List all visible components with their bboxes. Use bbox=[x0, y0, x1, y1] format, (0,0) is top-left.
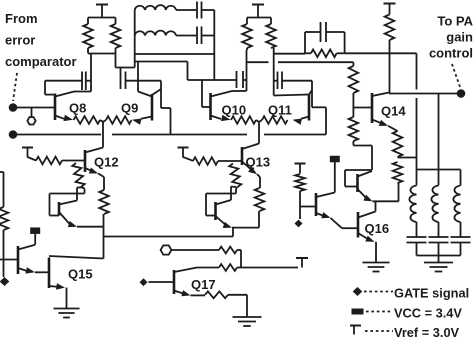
transistor Q9 base bar bbox=[151, 94, 154, 121]
wire tie pair2 to chain bbox=[278, 61, 353, 63]
resistor R-e-Q11 bbox=[262, 116, 288, 124]
legend VCC symbol bbox=[352, 309, 364, 315]
Q11 label bbox=[268, 103, 292, 118]
text From error comparator bbox=[5, 11, 77, 69]
capacitor C-Q10 bbox=[237, 71, 244, 88]
wire rail segment 3 bbox=[264, 134, 326, 136]
resistor R1-Q17 bbox=[219, 247, 237, 254]
svg-text:error: error bbox=[5, 33, 35, 48]
wire follower emitter to Q15 base bbox=[35, 271, 49, 273]
text To PA gain control bbox=[429, 14, 474, 61]
wire L1 to C1 bbox=[176, 9, 197, 11]
ground resonators bbox=[424, 263, 453, 272]
capacitor C-Q11 bbox=[278, 72, 283, 90]
wire mirror emitter to node bbox=[77, 226, 104, 228]
wire vert from output node bbox=[438, 94, 440, 170]
dashed leader to output dot bbox=[452, 64, 460, 87]
wire Q16fol base bbox=[300, 206, 316, 208]
Q17 emitter bbox=[174, 290, 191, 296]
resistor R-RC bbox=[305, 50, 345, 58]
resistor R-e-Q12 bbox=[99, 190, 109, 214]
resistor R-e-Q13 bbox=[255, 188, 265, 211]
resistor R-b-Q16 bbox=[295, 174, 305, 191]
wire C-Q11 right to jog bbox=[282, 80, 312, 82]
Q12-mirror emitter bbox=[59, 212, 77, 227]
capacitor C-Q8 bbox=[82, 72, 86, 91]
wire to ground corner bbox=[228, 295, 247, 317]
Q9 cap-rail jog bbox=[152, 81, 171, 135]
svg-text:Q14: Q14 bbox=[381, 104, 406, 119]
Q11 cap-rail jog bbox=[309, 81, 326, 135]
wire C1 to right bus bbox=[202, 9, 215, 11]
node Q10Q11 emitters bbox=[256, 120, 262, 122]
Q13-mirror collector bbox=[216, 187, 237, 205]
wire output line bbox=[389, 93, 458, 95]
svg-text:Q12: Q12 bbox=[94, 155, 119, 170]
inductor L4 bbox=[431, 186, 438, 223]
wire C-Q9 right to jog bbox=[126, 80, 162, 82]
inductor L5 bbox=[453, 186, 460, 223]
resistor R-e-Q8 bbox=[74, 116, 101, 124]
resistor R-b-Q13 bbox=[193, 157, 218, 165]
capacitor C5 bbox=[451, 237, 471, 243]
Q14 collector bbox=[372, 93, 389, 97]
capacitor C-RC bbox=[321, 22, 327, 42]
wire vert from rail lower bbox=[416, 98, 418, 170]
wire RC right edge bbox=[344, 32, 346, 53]
wire split pair1 bbox=[88, 18, 116, 25]
resistor R2-Q17 bbox=[219, 264, 237, 271]
wire tank bottom bus A bbox=[135, 53, 215, 55]
wire chain corner bbox=[352, 62, 354, 66]
wire rail to Q14 area bbox=[345, 52, 417, 54]
Q16-follower emitter bbox=[316, 212, 331, 218]
svg-text:Q15: Q15 bbox=[68, 267, 93, 282]
Q15-follower emitter bbox=[18, 267, 35, 273]
legend Vref dashes bbox=[365, 330, 393, 332]
wire Q15 emitter to ground bbox=[66, 288, 68, 308]
Q15 emitter bbox=[49, 283, 65, 289]
Q10 emitter bbox=[211, 115, 231, 121]
wire node down to Q12 bbox=[102, 122, 104, 148]
wire RC left edge bbox=[304, 32, 306, 53]
GATE diamond Q17 bbox=[140, 278, 148, 286]
svg-text:control: control bbox=[429, 46, 473, 61]
resistor R-b-Q12 bbox=[36, 157, 62, 165]
legend VCC dashes bbox=[366, 311, 393, 313]
Vref symbol (Q13 cell) bbox=[178, 148, 189, 158]
wire rail segment 1 bbox=[13, 134, 101, 136]
VCC symbol (Q16 cell) bbox=[330, 156, 340, 193]
Q8 label bbox=[69, 101, 86, 116]
Q15 label bbox=[68, 267, 93, 282]
wire node down to Q13 bbox=[258, 122, 260, 144]
ground Q16 bbox=[363, 263, 390, 272]
transistor Q12-mirror base bar bbox=[58, 202, 61, 216]
resistor R-pair1-left bbox=[83, 24, 93, 54]
wire Q12 mirror loop bbox=[50, 187, 85, 216]
transistor Q13-mirror base bar bbox=[214, 202, 217, 220]
svg-text:Q8: Q8 bbox=[69, 101, 86, 116]
capacitor C4 bbox=[429, 237, 449, 243]
inductor L1 bbox=[135, 5, 176, 10]
wire C-Q10 right stub bbox=[243, 79, 247, 81]
wire split pair2 bbox=[247, 18, 271, 25]
resistor R-Vref3 bbox=[385, 15, 395, 41]
wire resonator bottom bus bbox=[417, 255, 461, 257]
Q8 emitter bbox=[55, 115, 73, 121]
inductor L3 bbox=[409, 186, 416, 223]
wire tie pair1 bottoms bbox=[88, 53, 116, 55]
Q9 label bbox=[121, 101, 138, 116]
svg-text:comparator: comparator bbox=[5, 54, 77, 69]
GATE diamond Q16 bbox=[295, 220, 303, 228]
transistor Q15 base bar bbox=[48, 258, 51, 289]
Q10 collector bbox=[211, 91, 247, 97]
legend VCC text bbox=[394, 306, 462, 321]
Q12-mirror collector bbox=[59, 188, 81, 205]
wire mirror emitter to node bbox=[232, 211, 259, 228]
Q11 collector bbox=[274, 95, 309, 96]
wire L2 to C2 bbox=[176, 35, 197, 37]
transistor Q12 base bar bbox=[84, 150, 87, 172]
wire lower rail bbox=[104, 236, 234, 238]
wire pair2-right down bbox=[273, 48, 275, 96]
resistor R-e-Q17 bbox=[205, 291, 228, 298]
legend Vref symbol bbox=[350, 326, 361, 335]
transistor Q11 base bar bbox=[308, 94, 311, 121]
wire to base node bbox=[299, 191, 301, 219]
wire chain lower bbox=[3, 230, 5, 277]
Q16 label bbox=[365, 221, 390, 236]
wire RC top left bbox=[305, 31, 321, 33]
wire Vref3 to rail bbox=[389, 40, 391, 53]
resistor R-e-Q14-b bbox=[393, 162, 403, 183]
Q11 emitter bbox=[293, 117, 310, 125]
resistor R-e-Q10 bbox=[231, 116, 256, 124]
resistor R-slant-Q13 bbox=[229, 164, 241, 188]
wire coils to caps bbox=[417, 222, 461, 237]
node tank left edge wire bbox=[134, 10, 136, 68]
wire C-Q11 left stub bbox=[274, 80, 278, 82]
Q13 label bbox=[246, 155, 271, 170]
svg-text:To PA: To PA bbox=[437, 14, 473, 29]
resistor R-e-Q9 bbox=[106, 116, 132, 124]
wire to Q12 base bbox=[62, 160, 85, 162]
resistor R-pair2-right bbox=[266, 24, 276, 48]
wire Vref to resistor bbox=[28, 157, 37, 161]
wire tank right bus bbox=[213, 10, 215, 80]
transistor Q10 base bar bbox=[209, 93, 212, 120]
capacitor C3 bbox=[407, 237, 427, 243]
Q16 collector bbox=[358, 202, 376, 218]
wire R1 corner down bbox=[237, 250, 241, 268]
Q15-follower collector bbox=[18, 245, 35, 250]
wire mirror emitter to lower rail bbox=[232, 228, 234, 237]
Q10 label bbox=[222, 103, 247, 118]
resistor R-slant-Q12 bbox=[72, 163, 84, 187]
wire tie pair2 bbox=[247, 61, 269, 63]
wire rail segment 2 bbox=[112, 134, 247, 136]
wire follower emitter to Q16 base bbox=[331, 218, 359, 228]
resistor R-pair2-left bbox=[242, 24, 252, 50]
Q17 label bbox=[191, 277, 216, 292]
wire caps to bottom bus bbox=[417, 243, 461, 256]
legend GATE text bbox=[394, 286, 469, 301]
wire base line left bbox=[0, 259, 18, 261]
svg-text:Vref = 3.0V: Vref = 3.0V bbox=[394, 325, 460, 338]
wire vert from rail upper bbox=[416, 53, 418, 89]
wire chain jog to diode bbox=[353, 146, 372, 171]
Q9 emitter bbox=[132, 117, 152, 125]
wire resonator top bus bbox=[417, 170, 461, 186]
Q12 emitter bbox=[85, 168, 98, 174]
wire pair1-left down to Q8 collector bbox=[90, 54, 92, 92]
svg-text:Q16: Q16 bbox=[365, 221, 390, 236]
wire Q10 base corner bbox=[202, 80, 211, 107]
hexagon pad Q17 bbox=[161, 245, 172, 254]
wire Q13 emitter to resistor bbox=[257, 174, 260, 188]
capacitor C-Q9 bbox=[121, 72, 126, 90]
Q9 collector bbox=[138, 62, 152, 97]
Q16-diode emitter bbox=[358, 189, 373, 201]
capacitor C2 bbox=[197, 27, 202, 45]
wire hexagon to resistor bbox=[171, 249, 219, 251]
node Q8Q9 emitters bbox=[100, 120, 106, 122]
transistor Q16-diode base bar bbox=[356, 174, 359, 192]
svg-text:Q9: Q9 bbox=[121, 101, 138, 116]
Q15 collector bbox=[49, 256, 104, 259]
wire tap to tank bus bbox=[398, 157, 417, 159]
wire node to RC net bbox=[274, 53, 305, 55]
svg-text:VCC = 3.4V: VCC = 3.4V bbox=[394, 306, 462, 321]
wire bottom bus to ground bbox=[438, 256, 440, 263]
transistor Q8 base bar bbox=[54, 94, 57, 121]
Q16 emitter bbox=[358, 233, 375, 242]
wire chain upper bbox=[3, 172, 5, 207]
Q16-diode collector bbox=[358, 171, 373, 177]
transistor Q17 base bar bbox=[173, 270, 176, 294]
Q16-follower collector bbox=[316, 193, 335, 198]
Vref symbol (top-left pair) bbox=[96, 5, 108, 18]
inductor L2 bbox=[135, 31, 176, 36]
wire Vref to resistor bbox=[183, 157, 193, 161]
wire pair1-right down to line C bbox=[116, 54, 135, 72]
wire diode emitter to resistor node bbox=[373, 200, 399, 202]
wire diode collector feed bbox=[345, 169, 372, 171]
Vref symbol (center pair) bbox=[252, 5, 264, 18]
Vref symbol (Q16 cell) bbox=[295, 164, 306, 174]
transistor Q16 base bar bbox=[357, 212, 360, 238]
wire Q17 emitter resistor bbox=[191, 294, 206, 296]
Vref symbol (Q12 cell) bbox=[22, 148, 33, 158]
Vref symbol (Q17) bbox=[296, 258, 308, 268]
wire R2 to Vref bbox=[237, 267, 298, 269]
svg-text:Q17: Q17 bbox=[191, 277, 216, 292]
svg-text:Q13: Q13 bbox=[246, 155, 271, 170]
transistor Q16-follower base bar bbox=[315, 193, 318, 216]
wire Q16 emitter to ground bbox=[375, 242, 377, 262]
wire Q14 emitter to resistor bbox=[388, 126, 398, 131]
capacitor C1 bbox=[197, 2, 202, 19]
svg-text:Q10: Q10 bbox=[222, 103, 247, 118]
wire Q14 base bbox=[353, 107, 372, 109]
wire rail to output node bbox=[389, 53, 391, 93]
node output dot bbox=[457, 89, 466, 98]
resistor R-pair1-right bbox=[111, 24, 121, 54]
wire node vertical bbox=[103, 214, 105, 259]
wire C2 to right bus bbox=[202, 35, 215, 37]
svg-text:gain: gain bbox=[446, 30, 473, 45]
svg-text:GATE signal: GATE signal bbox=[394, 286, 469, 301]
transistor Q13 base bar bbox=[241, 147, 244, 165]
Vref symbol (Q14 collector) bbox=[384, 4, 396, 15]
wire pair2-left down bbox=[246, 50, 248, 91]
dashed leader from text to input dot bbox=[13, 73, 17, 101]
wire resistor bottom down bbox=[398, 183, 400, 202]
hexagon pad bbox=[27, 108, 35, 125]
wire Q13 mirror loop bbox=[206, 187, 238, 216]
Q13 emitter bbox=[242, 162, 257, 175]
ground Q15 bbox=[54, 309, 80, 318]
wire input lower rail dot bbox=[9, 130, 18, 139]
wire stub left edge bbox=[0, 171, 4, 173]
Q17 collector bbox=[174, 268, 219, 273]
Q8 collector bbox=[55, 92, 91, 97]
wire C-Q8 right stub bbox=[86, 80, 91, 82]
GATE diamond left bbox=[0, 277, 9, 286]
wire Q12 emitter to resistor bbox=[98, 173, 104, 190]
legend GATE dashes bbox=[364, 291, 393, 293]
ground Q17 bbox=[233, 317, 262, 326]
wire input upper bbox=[9, 103, 55, 112]
Q13-mirror emitter bbox=[216, 216, 233, 228]
transistor Q15-follower base bar bbox=[17, 246, 20, 274]
wire C-Q8 left to base corner bbox=[45, 81, 82, 95]
wire line B drop bbox=[187, 62, 189, 81]
resistor R-b1-Q14 bbox=[349, 66, 359, 93]
legend GATE diamond bbox=[353, 287, 363, 296]
resistor R-b2-Q14 bbox=[349, 117, 359, 146]
Q12 collector bbox=[85, 148, 103, 153]
svg-text:From: From bbox=[5, 11, 38, 26]
wire to Q13 base bbox=[218, 160, 242, 162]
wire chain mid bbox=[352, 93, 354, 117]
wire diode loop bbox=[345, 170, 358, 187]
wire diamond to Q17 base bbox=[149, 281, 175, 283]
svg-text:Q11: Q11 bbox=[268, 103, 292, 118]
wire RC top right bbox=[326, 31, 345, 33]
VCC symbol (Q15 cell) bbox=[30, 227, 40, 244]
wire tank line B bbox=[135, 61, 188, 63]
transistor Q14 base bar bbox=[371, 93, 374, 123]
legend Vref text bbox=[394, 325, 460, 338]
Q13 collector bbox=[242, 144, 259, 150]
resistor R-chain-left bbox=[0, 207, 8, 230]
Q14 label bbox=[381, 104, 406, 119]
Q14 emitter bbox=[372, 120, 388, 126]
Q12 label bbox=[94, 155, 119, 170]
wire Q10 base top bbox=[188, 79, 237, 81]
resistor R-e-Q14-a bbox=[393, 131, 403, 157]
